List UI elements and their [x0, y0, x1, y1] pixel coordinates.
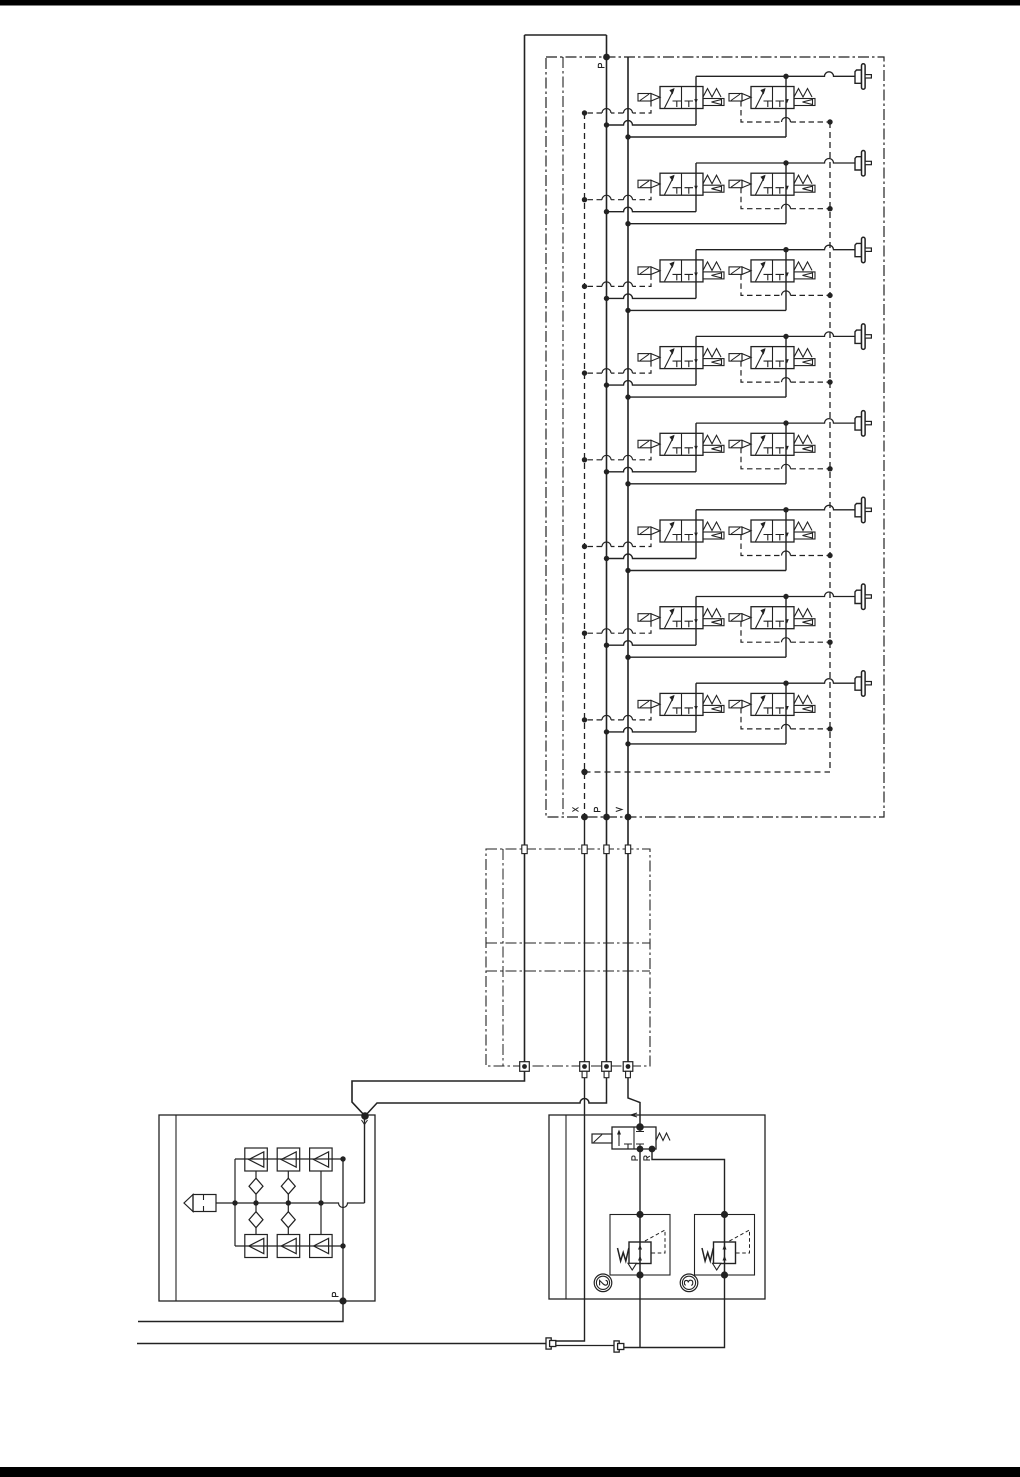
- quick coupling 1: [546, 1338, 556, 1349]
- wire: coupling link line: [556, 1345, 614, 1347]
- wire: supply run through block: [524, 854, 526, 1062]
- wire: station 7 valve A drop: [695, 597, 697, 646]
- label A: [631, 1113, 637, 1117]
- wire: station 8 V feed to valve B: [628, 743, 786, 745]
- sleeve connector V: [625, 845, 630, 854]
- distribution block partition: [502, 849, 504, 1066]
- check valve top 2: [277, 1148, 300, 1171]
- outlet fitting station 7: [855, 584, 871, 610]
- wire: station 1 outlet line: [696, 72, 855, 77]
- wire: station 6 P feed to valve A: [607, 554, 697, 559]
- node: station 1 V bus tap: [625, 134, 630, 139]
- wire: station 4 valve A drop: [695, 336, 697, 385]
- node: station 7 P bus tap: [604, 643, 609, 648]
- distribution block section line 2: [486, 970, 650, 972]
- wire: station 2 valve A drop: [695, 163, 697, 212]
- flow arrow into block: [362, 1120, 368, 1125]
- node: pilot valve R port: [649, 1146, 656, 1153]
- node: station 3 pilot return tap: [827, 293, 832, 298]
- wire: station 2 V feed to valve B: [628, 223, 786, 225]
- wire: station 5 V feed to valve B: [628, 483, 786, 485]
- outlet fitting station 6: [855, 497, 871, 523]
- node: collector bottom: [340, 1243, 345, 1248]
- node: station 5 pilot return tap: [827, 466, 832, 471]
- wire: P outlet down and left: [138, 1301, 343, 1322]
- pilot valve flow arrow: [618, 1132, 620, 1146]
- check valve top 3: [310, 1148, 333, 1171]
- check valve top 1: [245, 1148, 267, 1171]
- wire: station 1 V feed to valve B: [628, 136, 786, 138]
- node: station 4 outlet tee: [783, 334, 788, 339]
- sleeve connector X: [582, 845, 587, 854]
- pilot valve blocked port bottom right: [636, 1144, 644, 1149]
- outlet fitting station 3: [855, 237, 871, 263]
- distribution block section line 1: [486, 942, 650, 944]
- node: V at enclosure exit: [625, 814, 632, 821]
- wire: station 3 valve A drop: [695, 250, 697, 299]
- wire: station 8 pilot valve B return (dashed): [741, 708, 830, 729]
- wire: pilot return bottom run (dashed): [585, 771, 831, 773]
- pressure regulator 3: [695, 1211, 755, 1279]
- pressure regulator 2: [610, 1211, 670, 1279]
- solenoid valve 5B: [729, 433, 815, 455]
- plug stub below coupling: [604, 1071, 609, 1077]
- solenoid valve 3B: [729, 260, 815, 282]
- orifice at (288.3,1219.7): [281, 1212, 295, 1228]
- wire: station 1 pilot X to valve A (dashed): [585, 101, 652, 113]
- wire: main supply long line: [137, 1343, 546, 1345]
- solenoid valve 2A: [638, 173, 724, 195]
- node: station 8 pilot return tap: [827, 726, 832, 731]
- solenoid valve 7B: [729, 607, 815, 629]
- label P outlet: [332, 1293, 338, 1297]
- node: station 5 outlet tee: [783, 420, 788, 425]
- wire: station 2 pilot valve B return (dashed): [741, 188, 830, 209]
- solenoid valve 8A: [638, 693, 724, 715]
- plug stub below coupling: [582, 1071, 587, 1077]
- node: column 1 tap: [253, 1200, 258, 1205]
- valve manifold enclosure border: [546, 57, 884, 817]
- node: pilot valve P port: [637, 1146, 644, 1153]
- coupling supply at block bottom: [520, 1062, 530, 1072]
- wire: station 1 valve A drop: [695, 76, 697, 125]
- wire: supply line to check valve block: [352, 1071, 525, 1116]
- wire: station 6 valve A drop: [695, 510, 697, 559]
- wire: center pressure line: [216, 1203, 365, 1208]
- check valve bottom 2: [277, 1235, 300, 1258]
- sleeve connector P: [604, 845, 609, 854]
- wire: column 3 riser: [320, 1171, 322, 1235]
- wire: P port to regulator 2: [639, 1149, 641, 1215]
- node: station 3 V bus tap: [625, 308, 630, 313]
- solenoid valve 6A: [638, 520, 724, 542]
- orifice at (288.3,1186.2): [281, 1178, 295, 1194]
- wire: left loop rail: [234, 1159, 236, 1246]
- node: station 2 P bus tap: [604, 209, 609, 214]
- node: station 2 pilot return tap: [827, 206, 832, 211]
- wire: station 8 valve B drop: [785, 683, 787, 744]
- node: station 2 V bus tap: [625, 221, 630, 226]
- node: station 8 V bus tap: [625, 741, 630, 746]
- node: station 7 X bus tap: [582, 631, 587, 636]
- wire: station 1 P feed to valve A: [607, 121, 697, 126]
- wire: station 8 pilot X to valve A (dashed): [585, 708, 652, 720]
- node: column 3 tap: [318, 1200, 323, 1205]
- wire: station 7 pilot X to valve A (dashed): [585, 621, 652, 633]
- check valve block enclosure: [159, 1115, 375, 1301]
- outlet fitting station 4: [855, 324, 871, 350]
- node: P at enclosure exit: [603, 814, 610, 821]
- node: station 6 outlet tee: [783, 507, 788, 512]
- wire: station 4 valve B drop: [785, 336, 787, 397]
- wire: station 7 V feed to valve B: [628, 656, 786, 658]
- wire: V line down to pilot valve: [628, 1078, 640, 1127]
- node: station 3 X bus tap: [582, 284, 587, 289]
- orifice at (256,1186.2): [249, 1178, 263, 1194]
- node: station 7 pilot return tap: [827, 640, 832, 645]
- label P: [632, 1156, 638, 1160]
- outlet fitting station 8: [855, 671, 871, 697]
- node: station 4 pilot return tap: [827, 379, 832, 384]
- label R: [644, 1156, 650, 1160]
- coupling X at block bottom: [580, 1062, 590, 1072]
- wire: check valve top rail: [235, 1158, 343, 1160]
- coupling V at block bottom: [623, 1062, 633, 1072]
- wire: station 5 P feed to valve A: [607, 467, 697, 472]
- solenoid valve 1B: [729, 87, 815, 109]
- wire: station 6 pilot X to valve A (dashed): [585, 535, 652, 547]
- node: P outlet of check valve block: [339, 1297, 346, 1304]
- node: station 8 X bus tap: [582, 717, 587, 722]
- sleeve connector supply: [522, 845, 527, 854]
- node: station 5 V bus tap: [625, 481, 630, 486]
- wire: station 4 P feed to valve A: [607, 381, 697, 386]
- wire: X run through block: [584, 854, 586, 1062]
- wire: block inlet drop: [364, 1116, 366, 1203]
- wire: station 6 valve B drop: [785, 510, 787, 571]
- node: P at enclosure entry: [603, 54, 610, 61]
- wire: station 7 pilot valve B return (dashed): [741, 621, 830, 642]
- node: station 6 X bus tap: [582, 544, 587, 549]
- node: station 4 V bus tap: [625, 394, 630, 399]
- wire: station 5 valve A drop: [695, 423, 697, 472]
- label X: [572, 808, 578, 812]
- wire: station 3 outlet line: [696, 245, 855, 250]
- node: column 2 tap: [286, 1200, 291, 1205]
- node: station 6 V bus tap: [625, 568, 630, 573]
- wire: station 8 outlet line: [696, 679, 855, 684]
- pilot valve spring: [656, 1133, 670, 1141]
- solenoid valve 6B: [729, 520, 815, 542]
- wire: supply header top: [525, 34, 607, 36]
- node: X at enclosure exit: [581, 814, 588, 821]
- wire: X pilot bus (dashed): [584, 113, 586, 817]
- node: pilot valve A port: [636, 1123, 644, 1131]
- circled id 2: [594, 1274, 612, 1292]
- wire: regulator 3 output down and left: [624, 1275, 725, 1348]
- wire: P bus: [606, 35, 608, 845]
- check valve block inner wall: [175, 1115, 177, 1301]
- wire: station 3 pilot X to valve A (dashed): [585, 274, 652, 286]
- wire: P line down and left to check valve block: [365, 1078, 607, 1116]
- node: station 1 outlet tee: [783, 74, 788, 79]
- node: station 1 pilot return tap: [827, 119, 832, 124]
- node: station 3 P bus tap: [604, 296, 609, 301]
- solenoid valve 1A: [638, 87, 724, 109]
- orifice at (256,1219.7): [249, 1212, 263, 1228]
- wire: supply line left riser: [524, 35, 526, 845]
- wire: station 3 valve B drop: [785, 250, 787, 311]
- wire: station 8 P feed to valve A: [607, 727, 697, 732]
- node: station 6 pilot return tap: [827, 553, 832, 558]
- wire: station 5 pilot valve B return (dashed): [741, 448, 830, 469]
- wire: column 2 riser: [287, 1171, 289, 1235]
- wire: station 2 P feed to valve A: [607, 207, 697, 212]
- wire: regulator 2 output down: [639, 1275, 641, 1348]
- wire: station 3 pilot valve B return (dashed): [741, 274, 830, 295]
- node: station 1 X bus tap: [582, 110, 587, 115]
- wire: station 7 outlet line: [696, 592, 855, 597]
- regulator box inner wall: [565, 1115, 567, 1299]
- node: station 5 X bus tap: [582, 457, 587, 462]
- label P: [594, 808, 600, 812]
- wire: station 8 valve A drop: [695, 683, 697, 732]
- pilot valve pushbutton: [592, 1134, 612, 1143]
- plug stub below coupling: [626, 1071, 631, 1077]
- distribution block border: [486, 849, 650, 1066]
- wire: pilot return bus right (dashed): [829, 122, 831, 772]
- wire: V run through block: [627, 854, 629, 1062]
- wire: station 6 V feed to valve B: [628, 570, 786, 572]
- node: station 6 P bus tap: [604, 556, 609, 561]
- node: station 2 X bus tap: [582, 197, 587, 202]
- wire: station 7 valve B drop: [785, 597, 787, 658]
- outlet fitting station 2: [855, 151, 871, 177]
- node: station 8 P bus tap: [604, 729, 609, 734]
- solenoid valve 4B: [729, 347, 815, 369]
- pilot valve blocked port top right: [636, 1127, 644, 1132]
- circled id 3: [680, 1274, 698, 1292]
- node: station 4 P bus tap: [604, 382, 609, 387]
- pilot valve body: [612, 1127, 656, 1149]
- node: station 7 outlet tee: [783, 594, 788, 599]
- wire: right collector rail: [342, 1159, 344, 1301]
- wire: station 7 P feed to valve A: [607, 641, 697, 646]
- wire: station 2 outlet line: [696, 159, 855, 164]
- wire: V bus: [627, 57, 629, 845]
- outlet fitting station 5: [855, 411, 871, 437]
- wire: station 4 pilot X to valve A (dashed): [585, 361, 652, 373]
- node: station 8 outlet tee: [783, 681, 788, 686]
- page header bar: [0, 0, 1020, 6]
- solenoid valve 5A: [638, 433, 724, 455]
- page footer bar: [0, 1467, 1020, 1477]
- wire: station 3 V feed to valve B: [628, 309, 786, 311]
- node: station 1 P bus tap: [604, 122, 609, 127]
- node: collector top: [340, 1156, 345, 1161]
- wire: station 4 V feed to valve B: [628, 396, 786, 398]
- node: station 3 outlet tee: [783, 247, 788, 252]
- coupling P at block bottom: [602, 1062, 612, 1072]
- wire: X line down through regulator box: [556, 1078, 585, 1341]
- wire: station 1 pilot valve B return (dashed): [741, 101, 830, 122]
- wire: P run through block: [606, 854, 608, 1062]
- solenoid valve 2B: [729, 173, 815, 195]
- pilot valve blocked port left: [624, 1144, 632, 1149]
- wire: station 5 pilot X to valve A (dashed): [585, 448, 652, 460]
- wire: station 1 valve B drop: [785, 76, 787, 137]
- label V: [616, 808, 622, 812]
- wire: X line to distribution block: [584, 817, 586, 845]
- quick coupling 2: [614, 1341, 624, 1352]
- wire: column 1 riser: [255, 1171, 257, 1235]
- wire: station 6 outlet line: [696, 505, 855, 510]
- check valve bottom 3: [310, 1235, 333, 1258]
- wire: station 2 valve B drop: [785, 163, 787, 224]
- node: station 5 P bus tap: [604, 469, 609, 474]
- manifold inner partition line: [562, 57, 564, 817]
- outlet fitting station 1: [855, 64, 871, 90]
- solenoid valve 7A: [638, 607, 724, 629]
- regulator box enclosure: [549, 1115, 765, 1299]
- node: station 7 V bus tap: [625, 655, 630, 660]
- wire: station 4 pilot valve B return (dashed): [741, 361, 830, 382]
- wire: station 6 pilot valve B return (dashed): [741, 535, 830, 556]
- wire: station 4 outlet line: [696, 332, 855, 337]
- wire: station 3 P feed to valve A: [607, 294, 697, 299]
- wire: R port to regulator 3: [652, 1149, 725, 1215]
- node: X pilot junction bottom: [581, 769, 587, 775]
- node: check valve block inlet: [361, 1112, 369, 1120]
- solenoid valve 8B: [729, 693, 815, 715]
- wire: station 5 valve B drop: [785, 423, 787, 484]
- check valve bottom 1: [245, 1235, 267, 1258]
- node: muffler tee: [232, 1200, 237, 1205]
- solenoid valve 4A: [638, 347, 724, 369]
- node: station 4 X bus tap: [582, 370, 587, 375]
- wire: check valve bottom rail: [235, 1245, 343, 1247]
- wire: station 5 outlet line: [696, 419, 855, 424]
- exhaust muffler: [184, 1195, 193, 1212]
- solenoid valve 3A: [638, 260, 724, 282]
- node: station 2 outlet tee: [783, 160, 788, 165]
- wire: station 2 pilot X to valve A (dashed): [585, 188, 652, 200]
